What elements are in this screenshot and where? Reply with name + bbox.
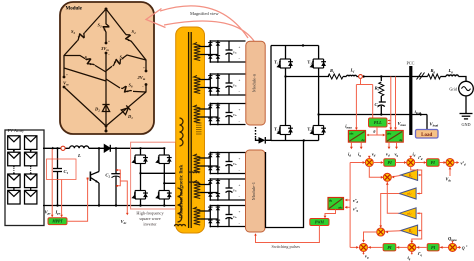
ground [465,96,467,114]
svg-text:Load: Load [421,133,432,138]
svg-text:iload: iload [415,109,422,115]
svg-text:imea: imea [345,123,352,129]
secondary winding 6 [194,207,200,225]
svg-text:S5: S5 [120,55,125,61]
node Vm port [63,76,66,79]
wire module-1 output [266,141,304,228]
svg-text:−: − [239,57,241,61]
rectifier bridge unit 1 [199,41,246,62]
dotted link between modules [255,127,257,138]
sum junction row B 1 [350,246,358,248]
secondary winding 2 [194,76,200,94]
capacitor C2 [111,148,120,205]
svg-text:Lg: Lg [448,68,454,74]
theta lines [367,127,385,135]
svg-text:PI: PI [431,245,436,250]
current sense i_mea [356,79,372,130]
winding block hatched [196,123,202,134]
red sense box around C1 [47,159,77,180]
svg-text:inverter: inverter [143,222,157,227]
svg-text:Module-n: Module-n [251,73,256,92]
primary feed coil b [189,182,199,183]
svg-text:i*q: i*q [418,251,423,257]
inductor Lf [347,75,357,76]
gain Rc bottom [401,225,418,236]
rectifier bridge unit 3 [199,104,246,125]
svg-text:PLL: PLL [374,120,382,125]
svg-text:Vdc: Vdc [233,114,237,117]
svg-text:D1: D1 [127,114,133,120]
node 2Vm port [145,70,148,73]
svg-text:dq: dq [329,198,333,202]
load box [416,130,439,139]
svg-text:abc: abc [349,131,354,135]
svg-text:S3: S3 [98,23,103,29]
svg-text:vq: vq [365,254,369,260]
svg-text:Ipv: Ipv [55,210,61,216]
transistor S2 [75,30,87,43]
red Ipv sense line [61,180,63,217]
transistor T1 [278,46,293,69]
wire [343,76,347,78]
svg-text:+: + [108,40,110,44]
svg-text:vq: vq [395,152,399,158]
transistor hf bottom-right [157,183,172,205]
rectifier bridge unit 6 [199,206,246,227]
secondary winding 5 [194,181,200,199]
svg-text:PWM: PWM [315,220,325,224]
PLL block [369,118,388,127]
svg-text:+: + [239,79,241,83]
red line node to PLL [372,85,374,119]
svg-text:D2: D2 [94,107,100,113]
sum junction row A 1 [365,159,373,167]
transistor T4 [311,126,326,141]
svg-text:Grid: Grid [449,86,458,91]
transistor S5 [111,56,124,68]
svg-text:PI: PI [431,160,436,165]
svg-text:MPPT: MPPT [51,220,63,224]
svg-text:−: − [239,195,241,199]
svg-text:+: + [66,73,68,77]
svg-text:iq: iq [408,255,411,261]
PI row A 2 [415,162,426,164]
svg-text:v*d: v*d [353,198,359,204]
rectifier bridge unit 2 [199,74,246,95]
svg-text:S2: S2 [71,29,76,35]
svg-text:Rg: Rg [431,68,436,74]
svg-text:−: − [239,90,241,94]
Q_mea input [452,241,454,243]
svg-text:PV Array: PV Array [8,128,25,133]
svg-text:C2: C2 [105,172,110,178]
wire dc bus module-n [270,46,272,141]
transistor Q boost switch [98,148,100,171]
node module top [105,8,108,11]
svg-text:Vm: Vm [63,81,69,87]
svg-text:−: − [142,85,144,89]
mid sum 1 [369,166,383,177]
primary winding coil upper [180,118,184,146]
module-1 box [246,150,266,232]
rail to triangle bases top [411,166,422,193]
svg-text:id: id [348,152,351,158]
wLf top to mid sum 2 [381,194,400,228]
wire pv top [43,147,141,149]
voltage sense V_mea [390,77,392,130]
svg-text:Rc: Rc [408,173,414,179]
transistor hf top-right [157,148,172,183]
svg-text:Vpv: Vpv [45,210,52,216]
resistor Rs [328,74,343,79]
svg-text:2Vm: 2Vm [137,75,146,81]
secondary winding 1 [194,43,200,61]
svg-text:Vdc: Vdc [233,52,237,55]
wire to PCC [357,76,410,78]
sum junction row A 3 [446,159,454,167]
svg-text:+: + [239,210,241,214]
gain wLf bottom [399,208,416,219]
svg-text:Magnified view: Magnified view [190,11,219,16]
transistor S1 [84,56,97,68]
id iq outputs [350,142,352,148]
wire hf top rail [141,147,164,149]
abc-dq block right [386,131,403,143]
PI row A 1 [373,162,383,164]
grid source [459,77,467,82]
PWM block [325,210,336,218]
svg-text:Rc: Rc [375,86,380,92]
node module bottom terminal [105,125,108,128]
svg-text:Vdc: Vdc [446,176,452,182]
transistor S4 [123,32,135,45]
svg-text:Vdc: Vdc [233,216,237,219]
transistor S3 [103,23,110,34]
diode D1 [121,105,130,114]
secondary winding 3 [194,105,200,123]
breaker [412,76,428,78]
wire hf output b [164,182,188,184]
svg-text:−: − [239,169,241,173]
svg-text:vd: vd [386,152,390,158]
svg-text:T1: T1 [274,60,279,66]
module inset box [60,2,154,134]
svg-text:3Vm: 3Vm [100,46,109,52]
svg-text:dq: dq [399,138,403,142]
svg-text:Vdc: Vdc [121,219,128,225]
svg-text:v*q: v*q [353,207,359,213]
svg-text:Module: Module [66,7,83,12]
wire bridge top rail [271,45,319,47]
svg-text:square wave: square wave [139,216,160,221]
primary winding coil lower [178,188,182,222]
transistor T3 [311,46,326,69]
capacitor C1 [53,148,62,205]
red MPPT output to gate [67,179,88,221]
magnetic core [188,32,190,228]
svg-text:Module-1: Module-1 [251,181,256,200]
wire right leg [318,68,320,126]
wire return line [319,114,427,116]
wire bridge bottom rail [271,140,319,142]
primary feed coil a [189,172,199,173]
svg-text:+: + [239,157,241,161]
svg-text:Vmea: Vmea [398,121,407,127]
svg-text:L: L [77,153,81,158]
transistor S6 [120,85,132,94]
wire pv bottom rail [43,205,176,207]
svg-text:GND: GND [461,122,470,127]
wire module S6 lower-right [64,9,146,131]
svg-text:−: − [239,222,241,226]
sum junction row B 3 [449,243,457,251]
wire hf output a [141,172,189,174]
svg-text:iq: iq [358,152,361,158]
common magnetic link bar [176,27,205,233]
wire output line [286,76,330,78]
PI row B 2 [416,246,427,248]
svg-text:i*d: i*d [418,155,423,161]
rail left [349,163,351,248]
sum junction row A 2 [407,159,415,167]
svg-text:dq: dq [362,138,366,142]
transistor hf top-left [133,148,148,173]
svg-text:T2: T2 [274,127,279,133]
svg-text:T4: T4 [307,127,312,133]
svg-text:S1: S1 [85,55,90,61]
dq-abc block [328,198,344,210]
secondary winding 4 [194,154,200,172]
svg-text:+: + [239,46,241,50]
switching pulses line [256,226,320,243]
node output red [359,75,363,79]
svg-text:θ: θ [373,130,375,134]
svg-text:+: + [143,66,145,70]
svg-text:abc: abc [338,205,343,209]
transistor hf bottom-left [133,173,148,205]
node Vpv red [61,146,65,150]
svg-text:S6: S6 [129,83,134,89]
svg-text:Qmea: Qmea [448,236,457,242]
svg-text:vd: vd [372,152,376,158]
PCC bus [409,66,412,135]
resistor Rg [428,74,441,79]
gain Rc top [401,170,418,181]
wire left leg [285,68,287,126]
svg-text:PI: PI [388,160,393,165]
PV cells [8,136,37,204]
transistor T2 [278,126,293,141]
PI row B 1 [368,246,383,248]
svg-text:+: + [239,108,241,112]
diode inter-module [256,138,272,140]
rectifier bridge unit 5 [199,179,246,200]
svg-text:PI: PI [387,245,392,250]
svg-text:High-frequency: High-frequency [136,211,164,216]
svg-text:Q: Q [462,245,465,250]
abc-dq block left [348,131,365,143]
MPPT block [48,218,67,225]
svg-text:−: − [108,53,110,57]
node 3Vm port [105,42,108,45]
magnified view arrow [160,6,248,38]
red Vpv sense line [51,149,53,217]
HF inverter dashed box [131,142,176,209]
rectifier bridge unit 4 [199,153,246,174]
mid sum 2 [377,228,385,236]
svg-text:Vdc: Vdc [233,85,237,88]
inductor Lg [441,76,447,78]
rail to triangle bases bottom [412,213,422,243]
svg-text:C1: C1 [64,169,69,175]
v*d v*q inputs [345,199,350,201]
module-n box [246,41,265,125]
svg-text:Rc: Rc [408,228,414,234]
load branch [426,115,428,130]
resistor Rc shunt [380,77,382,82]
svg-text:id: id [413,151,416,157]
svg-text:Switching pulses: Switching pulses [272,244,301,249]
sum junction row B 2 [408,243,416,251]
diode boost [104,145,110,152]
diode D2 [102,101,109,114]
svg-text:v*d: v*d [461,161,466,167]
PV array box [5,130,44,226]
inductor L [70,146,89,148]
wire hf bottom rail [139,204,141,206]
red sense bracket C2 / Vdc [117,170,121,186]
svg-text:Vdc: Vdc [233,163,237,166]
gain wLf top [399,188,416,199]
capacitor Cf [378,96,386,115]
svg-text:S4: S4 [132,29,137,35]
svg-text:Vload: Vload [430,122,439,128]
svg-text:abc: abc [387,131,392,135]
svg-text:−: − [66,88,68,92]
svg-text:Vdc: Vdc [233,190,237,193]
svg-text:PCC: PCC [407,61,415,66]
primary coil bottom loops [175,224,186,226]
svg-text:+: + [239,184,241,188]
svg-text:−: − [239,120,241,124]
svg-text:T3: T3 [307,60,312,66]
